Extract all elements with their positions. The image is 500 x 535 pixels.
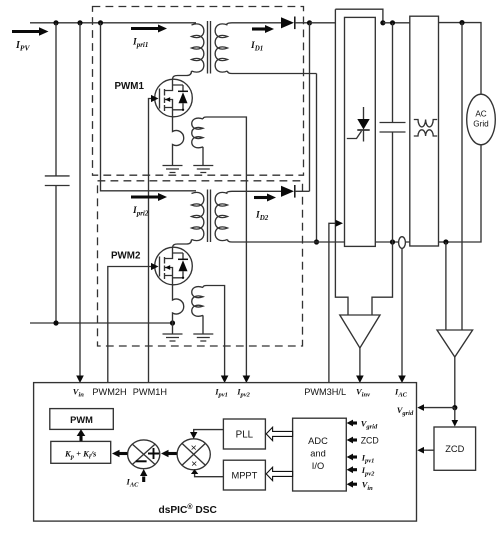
dashed box flyback cell 2 [98, 181, 303, 346]
dashed box flyback cell 1 [93, 7, 304, 176]
PLL block [223, 419, 265, 449]
wire Ipv1 sense from CT2 [207, 286, 225, 377]
arrowhead IAC into DSC [398, 376, 406, 384]
PWM block [50, 409, 114, 430]
wire Vgrid output [454, 357, 456, 408]
wire grid return [446, 145, 481, 242]
ZCD box [434, 427, 476, 470]
arrow multiplier to summing [161, 450, 177, 457]
hollow arrow ADC to PLL [266, 427, 292, 440]
arrowhead Vinv into DSC [356, 376, 364, 384]
MPPT block [223, 460, 265, 490]
node cell2 source/rail junction [170, 320, 175, 325]
svg-text:ZCD: ZCD [445, 444, 464, 454]
svg-text:ADC: ADC [308, 436, 328, 446]
ADC input Vgrid [347, 420, 357, 427]
wire top PV positive rail [30, 22, 196, 24]
wire D2 riser [309, 23, 311, 192]
diode D1 [281, 17, 310, 30]
arrow Vgrid into ZCD [454, 408, 456, 421]
capacitor Co [380, 23, 406, 242]
filter choke symbol [414, 120, 437, 137]
wire cell2 feed vertical [101, 23, 197, 191]
Kp+Ki/s block [51, 441, 111, 463]
multiplier [177, 439, 210, 470]
arrow ID2 [254, 194, 276, 202]
hollow arrow ADC to MPPT [266, 467, 292, 480]
CT1 secondary winding [192, 117, 207, 166]
svg-text:PWM: PWM [70, 415, 93, 425]
wire filter to grid [439, 23, 482, 95]
wire Vgrid sense lines [446, 23, 462, 330]
svg-text:Grid: Grid [473, 119, 489, 128]
arrowhead Vin into DSC [76, 376, 84, 384]
node cap bottom [53, 320, 58, 325]
ADC input Ipv2 [347, 466, 357, 473]
capacitor Cin [45, 23, 70, 323]
arrow Vgrid into DSC [424, 407, 455, 409]
CT2 primary loop (source winding) [173, 284, 184, 334]
arrowhead PWM1 gate [151, 95, 159, 102]
ground CT1 [193, 166, 213, 173]
current sensor IAC [399, 237, 406, 249]
ground Q2 source [163, 334, 183, 341]
wire bridge top bracket [335, 9, 383, 23]
diode D2 [281, 185, 310, 198]
wire to bridge [310, 22, 336, 24]
node D1 cathode junction [307, 20, 312, 25]
arrowhead PLL to multiplier [190, 432, 197, 439]
arrow PWM3H/L into bridge [329, 223, 336, 383]
ADC and I/O block [293, 418, 347, 491]
node Vgrid sense top [459, 20, 464, 25]
op-amp Vgrid sense [437, 330, 473, 357]
svg-text:PWM3H/L: PWM3H/L [304, 387, 346, 397]
wire bottom PV negative rail [30, 322, 173, 324]
wire Ipv2 sense from CT1 [207, 117, 247, 377]
dsPIC DSC box [34, 383, 417, 521]
wire secondary1 return [316, 74, 318, 243]
ground Q1 source [163, 166, 183, 173]
transformer T2 [173, 190, 345, 248]
arrow summing to Kp block [112, 450, 127, 457]
wire Vin sense vertical [79, 23, 81, 377]
arrowhead PWM2 gate [151, 263, 159, 270]
wire PLL to multiplier [194, 430, 224, 433]
svg-text:PWM2: PWM2 [111, 251, 141, 262]
bridge unfolding box [345, 17, 376, 246]
svg-text:PWM1H: PWM1H [133, 387, 167, 397]
SCR inside bridge [347, 107, 370, 142]
arrowhead Ipv2 into DSC [243, 376, 251, 384]
CT2 secondary winding [192, 286, 207, 335]
arrow IPV [12, 27, 49, 35]
svg-text:AC: AC [475, 110, 486, 119]
node cap Co top [390, 20, 395, 25]
node bracket junction [380, 20, 385, 25]
svg-text:ZCD: ZCD [361, 435, 379, 445]
node cell2 feed [98, 20, 103, 25]
wire Vinv output [359, 348, 361, 377]
AC grid source [467, 94, 496, 145]
wire PWM1H gate drive [149, 99, 152, 384]
arrow Ipri2 [131, 193, 167, 201]
mosfet Q2 [155, 247, 193, 285]
EMI filter box [410, 16, 439, 246]
node input cap top [53, 20, 58, 25]
svg-text:I/O: I/O [312, 461, 324, 471]
arrow Ipri1 [131, 25, 167, 33]
node Vgrid split [452, 405, 457, 410]
svg-text:PWM1: PWM1 [115, 81, 145, 92]
arrow ID1 [252, 25, 274, 33]
svg-text:×: × [191, 442, 197, 454]
wire IAC sense down [401, 248, 403, 376]
transformer T1 [173, 21, 317, 79]
ADC input Vin [347, 481, 357, 488]
arrow IAC into summing [140, 469, 147, 482]
op-amp Vinv sense [340, 315, 380, 348]
svg-text:×: × [191, 458, 197, 470]
wire Vinv+ sense line [335, 9, 348, 315]
svg-text:MPPT: MPPT [231, 471, 257, 481]
svg-text:PLL: PLL [236, 430, 254, 441]
ADC input ZCD [347, 437, 357, 444]
mosfet Q1 [155, 79, 193, 117]
arrowhead MPPT to multiplier [191, 469, 198, 474]
ground CT2 [193, 334, 213, 341]
wire output rail mid [375, 241, 410, 243]
wire PWM2H gate drive [108, 267, 151, 384]
CT1 primary loop (source winding) [173, 116, 184, 166]
node Vin sense tap [77, 20, 82, 25]
svg-text:and: and [310, 449, 326, 459]
wire [383, 22, 410, 24]
node cap Co bottom [390, 239, 395, 244]
arrow ZCD into DSC [424, 449, 435, 451]
arrowhead Ipv1 into DSC [221, 376, 229, 384]
wire rail right [439, 241, 446, 243]
wire Vinv right input [372, 242, 393, 315]
wire MPPT to multiplier [195, 474, 224, 477]
node grid return junction [443, 239, 448, 244]
summing junction [128, 440, 160, 469]
svg-text:PWM2H: PWM2H [92, 387, 126, 397]
arrow Kp to PWM [79, 436, 82, 442]
ADC input Ipv1 [347, 454, 357, 461]
node secondary1 return on rail [314, 239, 319, 244]
